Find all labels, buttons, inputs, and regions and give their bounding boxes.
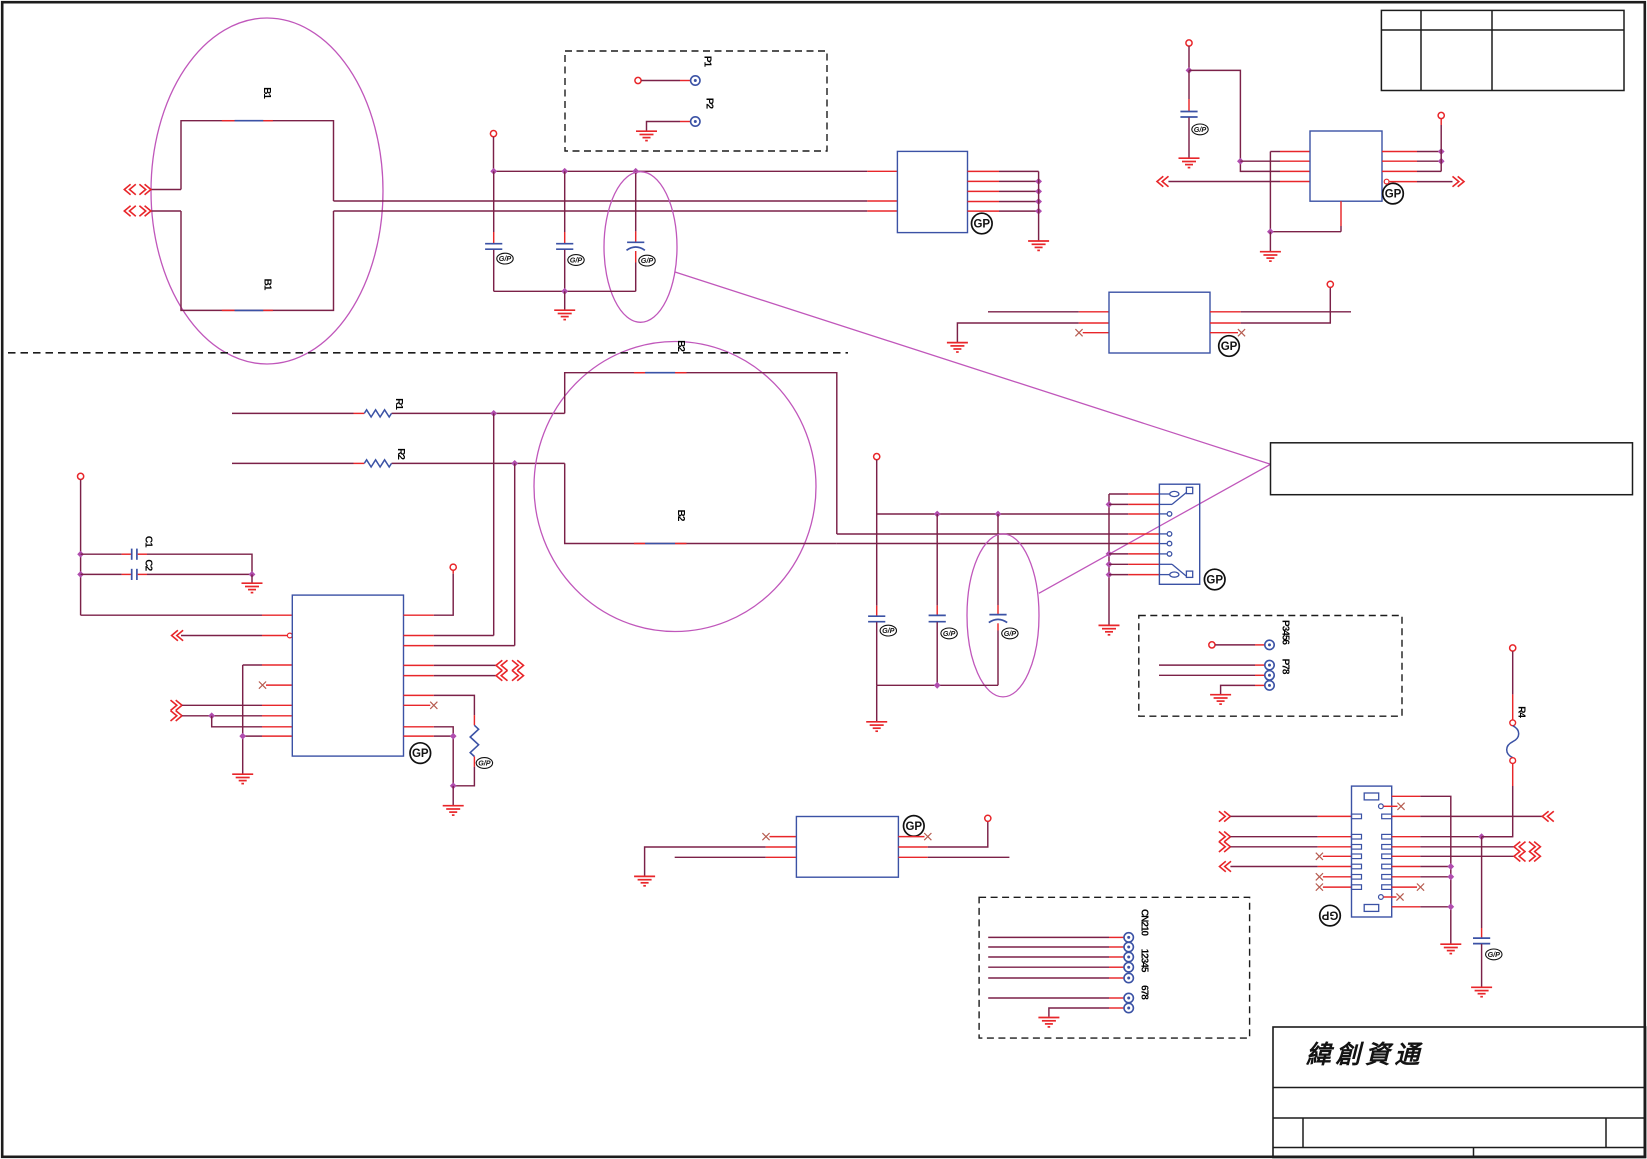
header pad column labels xyxy=(1138,909,1149,1000)
junction (U2 pin 2/ground bus) xyxy=(1035,178,1042,185)
CN2 row2 wire xyxy=(1230,836,1351,838)
U1 pin1 wire xyxy=(81,614,293,616)
svg-text:緯創資通: 緯創資通 xyxy=(1305,1041,1424,1069)
CN1 ground bus vertical xyxy=(1108,494,1110,625)
header pad 6 xyxy=(1124,993,1133,1002)
wire terminal down xyxy=(1188,46,1190,70)
C3 G/P label xyxy=(497,253,513,264)
CN2 left contact slots xyxy=(1352,814,1362,889)
header pad 3 xyxy=(1124,952,1133,961)
ground (U1 left) xyxy=(232,774,253,783)
power terminal (U1 right) xyxy=(450,564,456,570)
off-page port chevrons row 1 xyxy=(124,184,151,194)
U5 pin4 output wire xyxy=(1389,181,1453,183)
header pad 5 xyxy=(1124,973,1133,982)
ground (U5) xyxy=(1260,252,1281,261)
CN2 row1 right wire xyxy=(1392,815,1543,817)
header pad wire 3 xyxy=(988,956,1124,958)
U1 right pin2 wire xyxy=(404,635,494,637)
CN2 row4 no-connect xyxy=(1316,853,1352,860)
ferrite bead FB1 top loop wire xyxy=(181,121,334,201)
junction (bus/C2) xyxy=(77,571,84,578)
resistor R1 xyxy=(364,410,391,417)
CN1 shield pin bottom xyxy=(1159,564,1192,577)
ground (dashed box 1) xyxy=(636,131,657,140)
U5 pin2 wire xyxy=(1240,160,1310,162)
CN2 row2 right wire xyxy=(1392,836,1513,838)
U1 left ground bus xyxy=(242,665,244,774)
header pad 7 wire xyxy=(1049,1008,1124,1017)
svg-text:CN210: CN210 xyxy=(1138,909,1149,937)
CN1 pin7 wire xyxy=(1109,563,1159,565)
CN2 row7 no-connect xyxy=(1316,884,1352,891)
CN2 top slot xyxy=(1364,793,1379,800)
U3 right pin1 wire xyxy=(1210,311,1351,313)
junction (U5 ground) xyxy=(1267,228,1274,235)
CN2 row7 right no-connect xyxy=(1392,884,1424,891)
svg-text:678: 678 xyxy=(1138,985,1149,1000)
company logo text xyxy=(1305,1041,1424,1069)
U5 right pin2 wire xyxy=(1382,160,1441,162)
C9 G/P label xyxy=(1486,949,1502,960)
off-page port chevron (CN2 row3) xyxy=(1219,842,1231,852)
U1 pin3 wire xyxy=(243,664,293,666)
IC U3 xyxy=(1109,292,1210,353)
C1 label xyxy=(142,536,153,548)
U2 GP label xyxy=(972,213,993,234)
CN2 bottom slot xyxy=(1364,905,1379,912)
R4 top pin circle xyxy=(1510,720,1516,726)
svg-text:B1: B1 xyxy=(261,87,272,99)
junction (C8 branch) xyxy=(1186,67,1193,74)
wire net A from FB1 to U2 pin2 xyxy=(334,200,898,202)
test pad TP1 wire xyxy=(635,77,690,83)
header pad 4 xyxy=(1124,963,1133,972)
U1 right pin9 wire xyxy=(404,735,454,737)
wire stub to port row 1 xyxy=(151,189,181,191)
header pad wire 6 xyxy=(988,997,1124,999)
svg-text:GP: GP xyxy=(905,821,922,833)
junction (U2 pin 4/ground bus) xyxy=(1035,198,1042,205)
junction (R3/ground) xyxy=(450,782,457,789)
R4 bottom pin circle xyxy=(1510,758,1516,764)
off-page port chevron (CN2 row2) xyxy=(1219,832,1231,842)
off-page port chevron (U1 pin6) xyxy=(171,711,183,721)
U5 right pin3 wire xyxy=(1382,170,1441,172)
power terminal (U3) xyxy=(1327,281,1333,287)
svg-text:G/P: G/P xyxy=(943,629,956,638)
U3 right pin3 no-connect xyxy=(1210,329,1245,336)
U5 right pin1 wire xyxy=(1382,151,1441,153)
off-page port chevrons (U1 pin5) xyxy=(496,670,524,680)
wire net B from FB1 to U2 pin3 xyxy=(334,210,898,212)
U2 right pin 1 wire xyxy=(968,170,1039,172)
U4 pin2 wire xyxy=(645,847,797,876)
ground (CN1) xyxy=(1099,625,1120,634)
junction (pin6/pin7) xyxy=(208,712,215,719)
off-page port chevrons (row3 right) xyxy=(1514,842,1540,852)
connector CN2 body xyxy=(1352,786,1392,917)
ground (dashed box 2) xyxy=(1210,695,1231,704)
title block frame xyxy=(1273,1027,1646,1158)
U3 pin1 wire xyxy=(988,311,1109,313)
CN1 pin6 contact xyxy=(1159,552,1171,557)
CN2 row3 wire xyxy=(1230,846,1351,848)
wire stub to port row 2 xyxy=(151,210,181,212)
U4 right pin3 wire xyxy=(898,856,1009,858)
R2 label xyxy=(395,448,406,460)
CN2 row4 right wire xyxy=(1392,855,1514,857)
ground (U2) xyxy=(1028,241,1049,250)
CN2 top bubble stub xyxy=(1384,803,1405,810)
U1 GP label xyxy=(410,743,431,764)
resistor R2 xyxy=(364,460,391,467)
junction (R1/U1 branch) xyxy=(490,410,497,417)
ground (C8) xyxy=(1179,158,1200,167)
svg-text:G/P: G/P xyxy=(478,759,491,768)
capacitor C5 (polarized) xyxy=(627,171,645,291)
svg-text:G/P: G/P xyxy=(1194,125,1207,134)
dashed section separator xyxy=(8,352,848,354)
svg-text:R4: R4 xyxy=(1515,706,1526,718)
IC U5 (top right) xyxy=(1310,131,1382,201)
pad column labels xyxy=(1279,620,1290,675)
svg-text:P2: P2 xyxy=(703,98,714,110)
ground (U4) xyxy=(634,876,655,885)
junction (R2/U1 branch) xyxy=(511,460,518,467)
junction (CN1 pin8) xyxy=(1106,571,1113,578)
revision table xyxy=(1381,10,1624,90)
ground (U3) xyxy=(947,343,968,352)
svg-text:GP: GP xyxy=(973,219,990,231)
off-page port chevrons (U1 pin4) xyxy=(496,660,524,670)
highlight ellipse around C5 xyxy=(604,172,677,323)
junction (pin8/ground bus) xyxy=(239,733,246,740)
junction (bus/C4) xyxy=(561,168,568,175)
CN1 pin6 wire xyxy=(1109,553,1159,555)
U5 right vertical bus xyxy=(1440,119,1442,172)
CN1 pin5 contact xyxy=(1159,541,1171,546)
off-page port chevron (U1 pin5) xyxy=(171,700,183,710)
power bus wire to U2 pin1 xyxy=(494,170,898,172)
off-page port chevrons (row4 right) xyxy=(1514,851,1540,861)
test pad TP2 xyxy=(691,117,700,126)
R4 top wire xyxy=(1512,651,1514,720)
capacitor C6 xyxy=(868,514,885,685)
off-page port chevrons row 2 xyxy=(124,206,151,216)
TP2 label xyxy=(703,98,714,110)
wire FB2 to CN1 pin5 xyxy=(837,543,1160,545)
U1 pin6 wire xyxy=(182,715,292,717)
junction (bus/C5) xyxy=(632,168,639,175)
U1 right pin4 wire xyxy=(404,664,497,666)
ferrite bead FB2 bottom loop wire xyxy=(565,463,837,543)
CN1 GP label xyxy=(1204,569,1225,590)
C2 label xyxy=(142,559,153,571)
test pad TP1 xyxy=(691,76,700,85)
ground (C1 C2) xyxy=(242,583,263,592)
resistor R1 wire xyxy=(232,412,565,414)
CN1 pin3 contact xyxy=(1159,512,1171,517)
U1 right pin3 wire xyxy=(404,645,515,647)
ground stem (U1 right) xyxy=(452,786,454,805)
junction (U5 pin2 tee) xyxy=(1237,158,1244,165)
svg-text:R1: R1 xyxy=(393,398,404,410)
TP1 label xyxy=(701,56,712,68)
svg-text:C2: C2 xyxy=(142,559,153,571)
header pad wire 4 xyxy=(988,966,1124,968)
svg-text:B2: B2 xyxy=(675,340,686,352)
power terminal (left) xyxy=(78,473,84,479)
ferrite bead FB1 bottom loop wire xyxy=(181,211,334,310)
ground stem (caps) xyxy=(564,291,566,309)
U1 pin4 no-connect xyxy=(259,682,292,689)
capacitor C4 xyxy=(556,171,573,291)
capacitor C7 xyxy=(929,514,946,685)
U4 pin1 no-connect xyxy=(762,833,796,840)
U2 ground bus vertical xyxy=(1038,171,1040,240)
U2 right pin 3 wire xyxy=(968,190,1039,192)
header pad wire 2 xyxy=(988,946,1124,948)
CN2 row6 right wire xyxy=(1392,876,1451,878)
junction (U2 pin 3/ground bus) xyxy=(1035,188,1042,195)
junction (bus/C1) xyxy=(77,551,84,558)
off-page port chevron (U1 pin2) xyxy=(172,630,184,640)
pad wire W1 xyxy=(1209,642,1265,648)
junction (row6/ground bus) xyxy=(1447,873,1454,880)
capacitor C3 xyxy=(485,171,502,291)
U5 pin4 bubble xyxy=(1384,179,1389,184)
capacitor C2 xyxy=(81,569,252,580)
U5 pin4 wire from port xyxy=(1168,181,1310,183)
U1 pin2 bubble xyxy=(287,633,292,638)
power terminal (U5 right) xyxy=(1438,112,1444,118)
off-page port chevron (U5 pin4) xyxy=(1157,176,1169,186)
capacitor C9 xyxy=(1473,837,1490,987)
U2 right pin 5 wire xyxy=(968,210,1039,212)
svg-text:GP: GP xyxy=(1221,341,1238,353)
C8 G/P label xyxy=(1192,124,1208,135)
callout note box xyxy=(1271,443,1633,495)
ferrite bead FB2 top loop wire xyxy=(565,373,837,534)
ground (C9) xyxy=(1471,987,1492,996)
U1 right pin8 wire xyxy=(404,727,454,786)
resistor R2 wire xyxy=(232,462,565,464)
svg-text:12345: 12345 xyxy=(1138,949,1149,973)
R1 label xyxy=(393,398,404,410)
svg-text:P3456: P3456 xyxy=(1279,620,1290,645)
header pad 7 xyxy=(1124,1003,1133,1012)
off-page port chevron (CN2 row5) xyxy=(1220,861,1232,871)
ground (CN2) xyxy=(1440,944,1461,953)
U1 right pin1 wire xyxy=(404,570,454,615)
wire terminal to mid bus xyxy=(876,460,878,514)
U4 GP label xyxy=(904,816,925,837)
FB2 designator label xyxy=(675,340,686,352)
junction (right bus pin2) xyxy=(1438,158,1445,165)
ground stem (mid caps) xyxy=(876,685,878,721)
power terminal (U4) xyxy=(985,815,991,821)
junction (C1/C2 ground) xyxy=(249,571,256,578)
svg-text:P78: P78 xyxy=(1279,659,1290,675)
header pad wire 5 xyxy=(988,977,1124,979)
FB1 value label xyxy=(261,279,272,291)
C4 G/P label xyxy=(568,255,584,266)
dashed detail box (right) xyxy=(1139,616,1402,717)
svg-text:GP: GP xyxy=(412,748,429,760)
U3 GP label xyxy=(1219,336,1240,357)
R3 bottom wire xyxy=(453,757,474,786)
junction (U2 pin 5/ground bus) xyxy=(1035,208,1042,215)
CN2 top bubble xyxy=(1379,804,1384,809)
IC U2 xyxy=(897,151,967,232)
power terminal (top right) xyxy=(1186,40,1192,46)
junction (bus/C3) xyxy=(490,168,497,175)
ground bus wire under caps xyxy=(494,290,636,292)
C7 G/P label xyxy=(941,628,957,639)
svg-text:G/P: G/P xyxy=(641,256,654,265)
power terminal (R4 top) xyxy=(1510,645,1516,651)
U1 right pin7 no-connect xyxy=(404,702,438,709)
svg-text:P1: P1 xyxy=(701,56,712,68)
U1 pin5 wire xyxy=(182,704,292,706)
test pad TP2 wire xyxy=(647,122,691,131)
junction (bottom pin/ground bus) xyxy=(1447,903,1454,910)
mid power bus to CN1 pin3 xyxy=(877,513,1160,515)
pad wire W3 xyxy=(1159,674,1265,676)
U4 right pin2 wire xyxy=(898,821,987,847)
CN2 row1 wire xyxy=(1230,815,1351,817)
CN1 pin4 contact xyxy=(1159,532,1171,537)
IC U4 xyxy=(796,817,898,878)
header pad wire 1 xyxy=(988,936,1124,938)
connector CN1 body xyxy=(1159,484,1199,584)
ground (top caps) xyxy=(554,310,575,319)
CN2 right contact slots xyxy=(1382,814,1392,889)
wire terminal to bus xyxy=(493,137,495,172)
ground (mid caps) xyxy=(866,722,887,731)
CN1 pin2 wire xyxy=(1109,503,1159,505)
junction (mid ground bus) xyxy=(934,682,941,689)
C10 G/P label xyxy=(1002,628,1018,639)
highlight ellipse around ferrite bead FB1 xyxy=(151,18,383,364)
resistor R4 xyxy=(1507,726,1519,758)
R4 label xyxy=(1515,706,1526,718)
U3 right pin2 wire xyxy=(1210,287,1330,323)
power terminal (top middle) xyxy=(490,131,496,137)
wire R1 branch down to U1 pin xyxy=(493,413,495,635)
capacitor C1 xyxy=(81,549,252,575)
header pad 2 xyxy=(1124,942,1133,951)
junction (row5/ground bus) xyxy=(1447,863,1454,870)
R3 G/P label xyxy=(476,758,492,769)
CN2 row5 wire xyxy=(1230,866,1351,868)
CN1 pin1 wire xyxy=(1109,493,1159,495)
pad wire W4 xyxy=(1221,685,1265,694)
CN2 bottom bubble xyxy=(1379,895,1384,900)
CN1 shield pin top xyxy=(1159,487,1192,504)
mid ground bus xyxy=(877,684,998,686)
callout leader line B xyxy=(1039,464,1271,593)
junction (CN1 pin7) xyxy=(1106,561,1113,568)
CN2 row3 right wire xyxy=(1392,846,1514,848)
svg-text:G/P: G/P xyxy=(882,626,895,635)
resistor R3 xyxy=(470,725,478,756)
pad wire W2 xyxy=(1159,664,1265,666)
power terminal (middle) xyxy=(874,454,880,460)
U5 bottom pin wire xyxy=(1270,201,1341,232)
U3 pin2 wire xyxy=(957,323,1109,342)
U2 right pin 4 wire xyxy=(968,201,1039,203)
CN2 row5 right wire xyxy=(1392,866,1451,868)
svg-text:GP: GP xyxy=(1206,575,1223,587)
svg-text:R2: R2 xyxy=(395,448,406,460)
CN2 row6 no-connect xyxy=(1316,873,1352,880)
svg-text:G/P: G/P xyxy=(570,256,583,265)
C5 G/P label xyxy=(639,255,655,266)
svg-text:B2: B2 xyxy=(675,510,686,522)
ground stem (C1 C2) xyxy=(251,574,253,582)
ground (U1 right) xyxy=(443,806,464,815)
wire R2 branch down to U1 pin xyxy=(514,463,516,645)
highlight circle around ferrite bead FB2 xyxy=(534,342,816,632)
IC U1 xyxy=(292,595,403,756)
U1 pin2 wire xyxy=(181,635,287,637)
U2 right pin 2 wire xyxy=(968,180,1039,182)
off-page port chevron (row1 right) xyxy=(1542,811,1554,821)
U1 right pin6 wire to R3 xyxy=(404,695,475,725)
capacitor C8 xyxy=(1180,70,1197,157)
U4 pin3 wire xyxy=(675,856,797,858)
CN1 pin8 wire xyxy=(1109,574,1159,576)
svg-text:G/P: G/P xyxy=(499,254,512,263)
junction (pin9/bus) xyxy=(450,733,457,740)
junction (bus/C7) xyxy=(934,511,941,518)
U1 right pin5 wire xyxy=(404,675,497,677)
svg-text:B1: B1 xyxy=(261,279,272,291)
svg-text:G/P: G/P xyxy=(1488,950,1501,959)
svg-text:GP: GP xyxy=(1321,909,1338,921)
capacitor C10 (polarized) xyxy=(989,514,1007,685)
ground stem (U5) xyxy=(1269,232,1271,251)
junction (CN1 pin2) xyxy=(1106,501,1113,508)
R4 bottom wire xyxy=(1482,764,1513,837)
dashed detail box (bottom) xyxy=(979,897,1250,1038)
dashed detail box (top middle) xyxy=(565,51,827,151)
callout leader line A xyxy=(675,272,1271,464)
U4 right pin1 no-connect xyxy=(898,833,931,840)
FB1 designator label xyxy=(261,87,272,99)
CN2 bottom pin wire xyxy=(1392,906,1451,908)
wire FB2 to CN1 pin4 xyxy=(837,533,1160,535)
U5 GP label xyxy=(1383,183,1404,204)
junction (right bus pin1) xyxy=(1438,148,1445,155)
off-page port chevron (U5 out) xyxy=(1453,176,1465,186)
pad P5 xyxy=(1265,671,1274,680)
U5 pin1 wire xyxy=(1270,152,1310,232)
svg-text:C1: C1 xyxy=(142,536,153,548)
pad P6 xyxy=(1265,681,1274,690)
highlight ellipse around C10 xyxy=(967,534,1039,697)
CN2 top pin wire xyxy=(1392,796,1451,943)
C6 G/P label xyxy=(880,625,896,636)
junction (CN1 pin6) xyxy=(1106,551,1113,558)
junction (ground bus) xyxy=(561,288,568,295)
ground (dashed box 3) xyxy=(1038,1018,1059,1027)
CN2 bottom bubble stub xyxy=(1384,893,1404,900)
FB2 center label xyxy=(675,510,686,522)
pad P3 xyxy=(1265,640,1274,649)
